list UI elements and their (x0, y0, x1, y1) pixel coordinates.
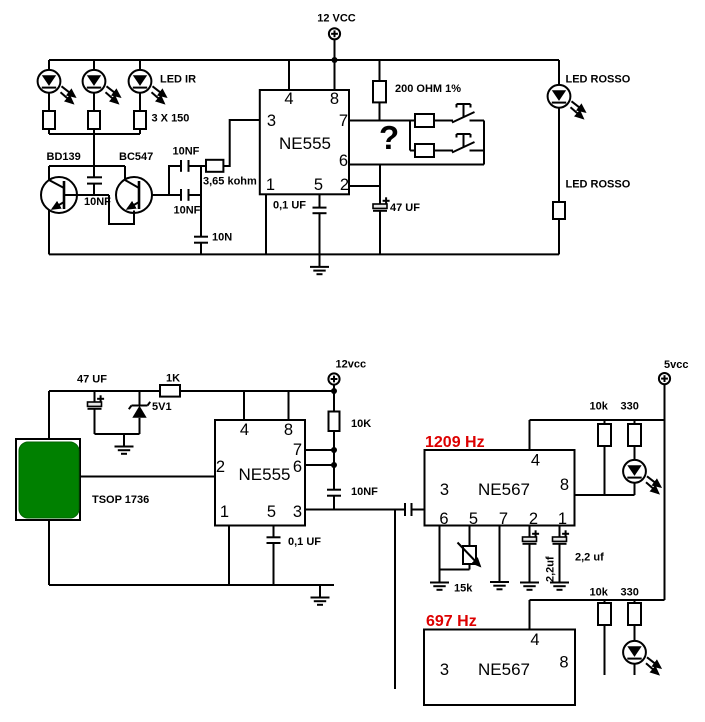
wire 5vcc rail 2 (530, 599, 665, 601)
capacitor C11 2,2uf (523, 530, 540, 544)
wire pin2 stem U3 (529, 526, 531, 538)
ground top circuit (310, 254, 329, 274)
svg-text:3: 3 (440, 481, 449, 499)
svg-text:15k: 15k (454, 583, 473, 595)
svg-text:5: 5 (267, 503, 276, 521)
svg-text:5: 5 (314, 176, 323, 194)
wire left drop to TSOP (48, 391, 50, 439)
wire pin6 line (349, 164, 484, 166)
junction dot pin6 (331, 462, 337, 468)
wire pin6 line U2 (305, 464, 334, 466)
wire bottom rail 2 (49, 584, 334, 586)
wire C7 to zener link (95, 433, 140, 435)
wire D2 to R2 (93, 93, 95, 111)
wire R6 down (558, 219, 560, 254)
wire LED bus (49, 133, 140, 135)
wire LED3 riser (139, 60, 141, 70)
wire node vertical (200, 166, 202, 237)
wire pin8 line U3 (575, 494, 635, 496)
LED D5 (623, 460, 660, 493)
ground pin6 U3 (430, 570, 449, 590)
svg-text:8: 8 (560, 476, 569, 494)
svg-text:3 X 150: 3 X 150 (152, 113, 190, 125)
svg-text:10K: 10K (351, 418, 371, 430)
wire R2 bottom (93, 129, 95, 134)
capacitor C10 0,1 UF (267, 526, 281, 586)
switch S2 (410, 134, 484, 157)
svg-text:LED IR: LED IR (160, 74, 196, 86)
wire pin6 stem U3 (439, 526, 441, 583)
wire pin8 riser U2 (288, 391, 290, 420)
capacitor C9 coupling (405, 503, 425, 516)
svg-text:10k: 10k (590, 587, 609, 599)
svg-text:NE567: NE567 (478, 480, 530, 499)
wire 5vcc vertical (664, 384, 666, 600)
wire Q1 emitter down (48, 210, 50, 255)
capacitor C1 10NF (87, 177, 102, 195)
ground bottom NE555 (311, 585, 330, 605)
capacitor C8 10NF (327, 490, 341, 510)
svg-text:3: 3 (293, 503, 302, 521)
svg-text:5vcc: 5vcc (664, 359, 688, 371)
svg-text:1209 Hz: 1209 Hz (425, 434, 485, 451)
wire pin8 riser (334, 60, 336, 90)
resistor R1 150 (43, 111, 55, 129)
svg-text:10NF: 10NF (351, 486, 378, 498)
svg-text:7: 7 (293, 441, 302, 459)
svg-text:LED ROSSO: LED ROSSO (566, 74, 631, 86)
svg-text:12vcc: 12vcc (336, 359, 367, 371)
wire pin2 line (349, 185, 380, 187)
wire output drop (394, 510, 396, 690)
svg-text:6: 6 (293, 458, 302, 476)
wire LED2 riser (93, 60, 95, 70)
capacitor C6 0,1 UF (313, 194, 327, 254)
resistor R10 330 (628, 420, 641, 460)
svg-text:2,2uf: 2,2uf (545, 556, 557, 582)
LED D6 (623, 641, 660, 674)
wire C7 down (94, 409, 96, 434)
svg-text:0,1 UF: 0,1 UF (288, 536, 321, 548)
wire pin1 stem U3 (559, 526, 561, 538)
wire LED ROSSO branch top (558, 60, 560, 85)
svg-text:0,1 UF: 0,1 UF (273, 200, 306, 212)
capacitor C7 47 UF (94, 391, 96, 402)
svg-text:10N: 10N (212, 232, 232, 244)
svg-text:1K: 1K (166, 373, 180, 385)
svg-text:?: ? (379, 119, 399, 156)
resistor R4 3,65 kohm (206, 160, 223, 172)
potentiometer 15k (440, 526, 481, 570)
svg-text:TSOP 1736: TSOP 1736 (92, 494, 149, 506)
LED IR D3 (129, 70, 166, 103)
svg-text:12 VCC: 12 VCC (317, 13, 356, 25)
wire 12VCC stem (334, 39, 336, 60)
resistor R5 200 OHM (373, 60, 386, 121)
capacitor C12 2,2uf (553, 530, 570, 544)
svg-text:4: 4 (284, 90, 293, 108)
TSOP 1736 module (16, 439, 80, 520)
svg-text:47 UF: 47 UF (390, 202, 420, 214)
svg-text:1: 1 (558, 510, 567, 528)
ground pin1 U3 (550, 570, 569, 590)
wire bottom rail top circuit (49, 253, 559, 255)
transistor Q2 BC547 (116, 166, 152, 213)
5vcc supply terminal (659, 373, 670, 384)
capacitor C5 47 UF (373, 197, 390, 211)
svg-text:10NF: 10NF (173, 146, 200, 158)
bottom circuit power rail (49, 390, 334, 392)
wire R4 to pin3 riser (223, 120, 259, 166)
svg-text:5: 5 (469, 510, 478, 528)
svg-text:7: 7 (339, 112, 348, 130)
ground pin7 U3 (490, 570, 509, 590)
LED IR D1 (38, 70, 75, 103)
wire C5 to rail (379, 211, 381, 255)
capacitor C2 10NF top (181, 160, 206, 172)
switch S1 (410, 104, 484, 127)
junction dot pin7 (331, 447, 337, 453)
svg-text:BC547: BC547 (119, 151, 153, 163)
svg-text:697 Hz: 697 Hz (426, 613, 477, 630)
wire 5vcc rail 1 (530, 419, 665, 421)
wire pin7 line U2 (305, 449, 334, 451)
resistor R6 (553, 202, 565, 219)
wire D3 to R3 (139, 93, 141, 111)
wire switch right vertical (483, 121, 485, 165)
wire C11 down (529, 544, 531, 583)
svg-text:330: 330 (621, 401, 639, 413)
svg-text:4: 4 (240, 421, 249, 439)
svg-text:10k: 10k (590, 401, 609, 413)
svg-text:200 OHM 1%: 200 OHM 1% (395, 83, 461, 95)
svg-text:3: 3 (440, 661, 449, 679)
svg-text:NE567: NE567 (478, 660, 530, 679)
capacitor C7 polarized plates (88, 395, 105, 409)
wire pin7 stem U3 (499, 526, 501, 583)
wire D6 stub (634, 664, 636, 675)
resistor R9 10k (598, 420, 611, 495)
ground zener (115, 434, 134, 454)
resistor R2 150 (88, 111, 100, 129)
wire C12 down (559, 544, 561, 583)
svg-text:1: 1 (220, 503, 229, 521)
12 VCC supply terminal (329, 28, 340, 39)
svg-text:2: 2 (216, 458, 225, 476)
svg-text:3,65 kohm: 3,65 kohm (203, 176, 257, 188)
wire base rail Q1 (64, 194, 109, 196)
wire pin4 riser U4 (529, 600, 531, 630)
svg-text:10NF: 10NF (174, 205, 201, 217)
svg-text:5V1: 5V1 (152, 401, 172, 413)
wire pin7 line (349, 120, 410, 122)
wire pin3 output line (305, 509, 405, 511)
resistor R8 10K (329, 391, 340, 490)
top power rail 12V wire (49, 59, 559, 61)
wire TSOP out to pin2 (80, 476, 215, 478)
transistor Q1 BD139 (41, 166, 77, 213)
wire TSOP bottom drop (48, 520, 50, 585)
svg-text:4: 4 (530, 631, 539, 649)
12vcc supply terminal (328, 373, 339, 384)
svg-text:2: 2 (529, 510, 538, 528)
wire pin6 to C5 (379, 165, 381, 205)
svg-text:8: 8 (284, 421, 293, 439)
svg-text:BD139: BD139 (47, 151, 81, 163)
resistor R7 1K (160, 385, 180, 397)
op IC U4 NE567 (424, 630, 575, 706)
junction dot on rail (332, 57, 338, 63)
wire pin1 drop (265, 194, 267, 254)
wire pin4 riser (288, 60, 290, 90)
resistor R11 10k (598, 600, 611, 675)
wire switch left vertical (409, 121, 411, 151)
op IC U2 NE555 (215, 420, 305, 526)
svg-text:7: 7 (499, 510, 508, 528)
svg-text:6: 6 (439, 510, 448, 528)
svg-text:3: 3 (267, 112, 276, 130)
zener diode 5V1 (129, 391, 150, 434)
wire D5 to pin8 (634, 483, 636, 495)
svg-text:47 UF: 47 UF (77, 374, 107, 386)
svg-text:2,2 uf: 2,2 uf (575, 552, 604, 564)
wire pin4 riser U3 (529, 420, 531, 450)
wire LED1 riser (48, 60, 50, 70)
svg-text:1: 1 (266, 176, 275, 194)
wire D4 down (558, 108, 560, 202)
svg-text:LED ROSSO: LED ROSSO (566, 179, 631, 191)
svg-text:4: 4 (531, 452, 540, 470)
capacitor C4 10N (194, 237, 208, 255)
svg-text:10NF: 10NF (84, 196, 111, 208)
resistor R3 150 (134, 111, 146, 129)
wire Q2 base to caps (152, 194, 181, 196)
wire pin4 riser U2 (243, 391, 245, 420)
wire cap branch up (169, 166, 181, 195)
wire R1 bottom (48, 129, 50, 134)
wire pin1 stem U2 (228, 526, 230, 586)
op IC U1 NE555 (260, 90, 349, 194)
op IC U3 NE567 (425, 450, 575, 526)
svg-text:NE555: NE555 (279, 134, 331, 153)
svg-text:2: 2 (340, 176, 349, 194)
LED IR D2 (83, 70, 120, 103)
capacitor C3 10NF lower (181, 189, 201, 201)
wire 12vcc stem (333, 385, 335, 391)
svg-text:6: 6 (339, 152, 348, 170)
svg-text:NE555: NE555 (239, 465, 291, 484)
svg-text:8: 8 (559, 654, 568, 672)
wire collector rail (49, 165, 125, 167)
resistor R12 330 (628, 600, 641, 641)
wire bus drop to C1 (93, 134, 95, 177)
wire D1 to R1 (48, 93, 50, 111)
svg-text:8: 8 (330, 90, 339, 108)
junction dot rail2 (331, 388, 337, 394)
ground pin2 U3 (520, 570, 539, 590)
LED ROSSO D4 (548, 85, 585, 118)
wire R3 bottom (139, 129, 141, 134)
wire Q2 emitter step (109, 195, 134, 224)
svg-text:330: 330 (621, 587, 639, 599)
